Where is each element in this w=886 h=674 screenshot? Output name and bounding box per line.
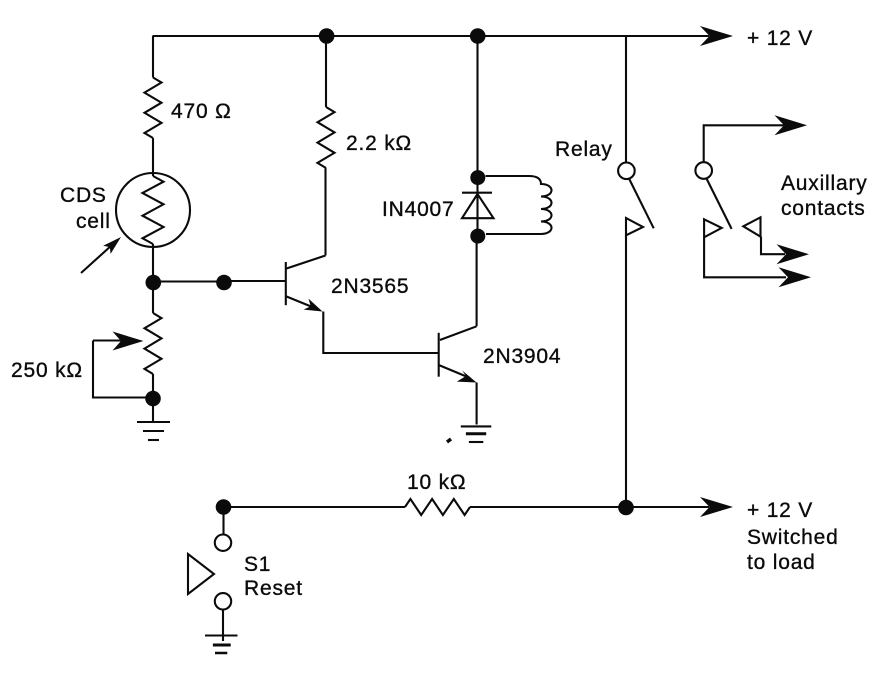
stray mark [447,439,451,442]
wire: CDS cell to node A [152,244,154,282]
aux fixed contact triangle right [743,217,760,236]
wire: node A down to potentiometer [152,282,154,313]
arrowhead: switched +12V output [700,497,733,517]
switch S1 bottom contact circle [215,593,231,609]
svg-text:2.2 kΩ: 2.2 kΩ [346,132,412,155]
transistor Q2 emitter lead [439,365,470,378]
arrowhead: aux bottom [779,267,812,287]
junction dot node C [216,499,232,515]
transistor Q1 emitter arrowhead [304,299,323,312]
arrow pointing at CDS cell [81,245,112,273]
ground symbol (S1) [205,634,238,636]
relay switch blade [629,179,654,229]
switch S1 top contact circle [215,535,231,551]
arrowhead: aux top [775,115,808,135]
wire: Q1 emitter to Q2 base [323,312,438,354]
wire: rail down to R1 [152,36,154,78]
transistor Q1 emitter lead [287,297,317,309]
svg-text:+ 12 V: + 12 V [747,499,813,522]
svg-text:IN4007: IN4007 [382,198,455,221]
potentiometer R2 250k body [145,313,162,374]
transistor Q1 2N3565 base bar [285,262,287,305]
wire: S1 to ground [222,610,224,642]
aux contacts common circle [695,162,712,179]
relay switch fixed contact triangle [626,218,643,235]
transistor Q1 collector lead [287,256,326,269]
svg-text:2N3565: 2N3565 [331,275,409,298]
CDS cell photoresistor circle [116,173,190,247]
svg-text:10 kΩ: 10 kΩ [407,471,466,494]
potentiometer wiper arrow [93,339,122,341]
CDS cell resistive element [143,176,164,244]
junction dot diode anode node [470,229,485,244]
svg-text:470 Ω: 470 Ω [171,100,232,123]
resistor R4 10k [405,499,470,515]
wire: bottom rail left of R4 [224,506,406,508]
diode D1 IN4007 cathode bar [462,192,492,194]
potentiometer wiper wire [93,341,148,398]
wire: aux right contact to arrow [761,237,785,255]
svg-text:cell: cell [76,210,111,233]
wire: node A to node B [153,280,224,282]
junction dot on rail above R3 [319,28,335,44]
arrowhead: +12V rail [700,26,733,46]
wire: +12V top supply rail [153,35,710,37]
svg-text:Auxillary: Auxillary [781,172,868,195]
wire: Q2 emitter to ground [476,383,478,425]
node A junction dot [146,275,162,291]
wire: diode node to node below [476,177,478,236]
wire: rail down to diode top node [476,36,478,177]
wire: rail down to relay switch [625,36,627,163]
ground symbol (Q2 emitter) [461,425,492,427]
svg-text:Relay: Relay [555,138,613,161]
relay coil K1 [486,176,552,234]
wire: aux left contact to arrow [704,237,786,277]
transistor Q2 emitter arrowhead [457,370,477,382]
wire: node C down to switch S1 [222,507,224,534]
wire: R4 to node D [470,506,709,508]
arrowhead: aux right [777,244,810,264]
relay switch common contact circle [618,163,635,180]
aux contacts blade [707,179,732,229]
svg-text:+ 12 V: + 12 V [747,27,813,50]
svg-text:S1: S1 [244,553,271,576]
ground symbol (potentiometer) [137,421,170,423]
junction dot node D [618,500,634,516]
svg-text:Switched: Switched [747,526,839,549]
node B junction dot [216,275,232,291]
resistor R1 470 ohm [145,78,162,139]
wire: Q2 collector up to diode bottom node [476,236,478,326]
junction dot diode cathode node [470,170,485,185]
aux fixed contact triangle left [704,219,722,237]
wire: R3 to Q1 collector [324,168,326,256]
junction dot on rail above diode [470,28,486,44]
aux contacts: wire common up and right [704,125,784,162]
svg-text:CDS: CDS [60,184,107,207]
svg-text:to load: to load [747,551,816,574]
resistor R3 2.2k [318,107,335,168]
wire: R1 to CDS cell [152,138,154,176]
junction dot pot bottom [145,391,161,407]
wire: node B to Q1 base [224,280,286,282]
switch S1 actuator triangle [188,554,214,594]
transistor Q2 collector lead [440,326,477,340]
svg-text:contacts: contacts [781,197,866,220]
diode D1 IN4007 triangle [462,194,494,218]
svg-text:Reset: Reset [244,577,303,600]
transistor Q2 2N3904 base bar [438,333,440,377]
wire: relay switch to bottom rail [625,235,627,507]
wire: rail down to R3 [325,36,327,107]
svg-text:250 kΩ: 250 kΩ [11,359,83,382]
svg-text:2N3904: 2N3904 [483,345,561,368]
wire: pot bottom to ground [152,374,154,421]
